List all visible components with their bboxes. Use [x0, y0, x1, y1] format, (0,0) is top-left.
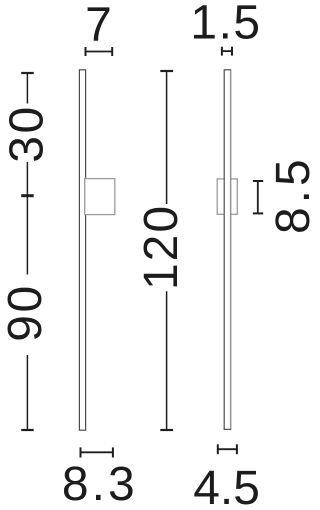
- svg-text:90: 90: [0, 283, 52, 341]
- svg-text:8.5: 8.5: [267, 155, 314, 234]
- dimension line 30/90 (left vertical): [21, 73, 34, 430]
- dimension line 120 (center vertical): [160, 71, 173, 430]
- dimension line 1.5 (top right): [222, 47, 232, 56]
- svg-text:30: 30: [0, 104, 53, 162]
- svg-text:120: 120: [135, 204, 188, 290]
- mounting box (right view): [217, 179, 237, 214]
- mounting box (left view): [85, 179, 115, 215]
- svg-text:1.5: 1.5: [190, 0, 261, 50]
- dimension line 8.5 (right of box): [253, 181, 263, 213]
- lamp front bar right edge lighter: [230, 71, 232, 429]
- svg-text:7: 7: [85, 0, 112, 52]
- dimension line 4.5 (bottom right): [218, 444, 237, 454]
- svg-text:8.3: 8.3: [62, 458, 138, 510]
- lamp front bar (right view): [224, 70, 230, 430]
- lamp profile bar (left view): [79, 70, 85, 430]
- dimension line 7 (top left): [86, 47, 113, 56]
- dimension line 8.3 (bottom left): [81, 447, 113, 457]
- svg-text:4.5: 4.5: [193, 462, 260, 510]
